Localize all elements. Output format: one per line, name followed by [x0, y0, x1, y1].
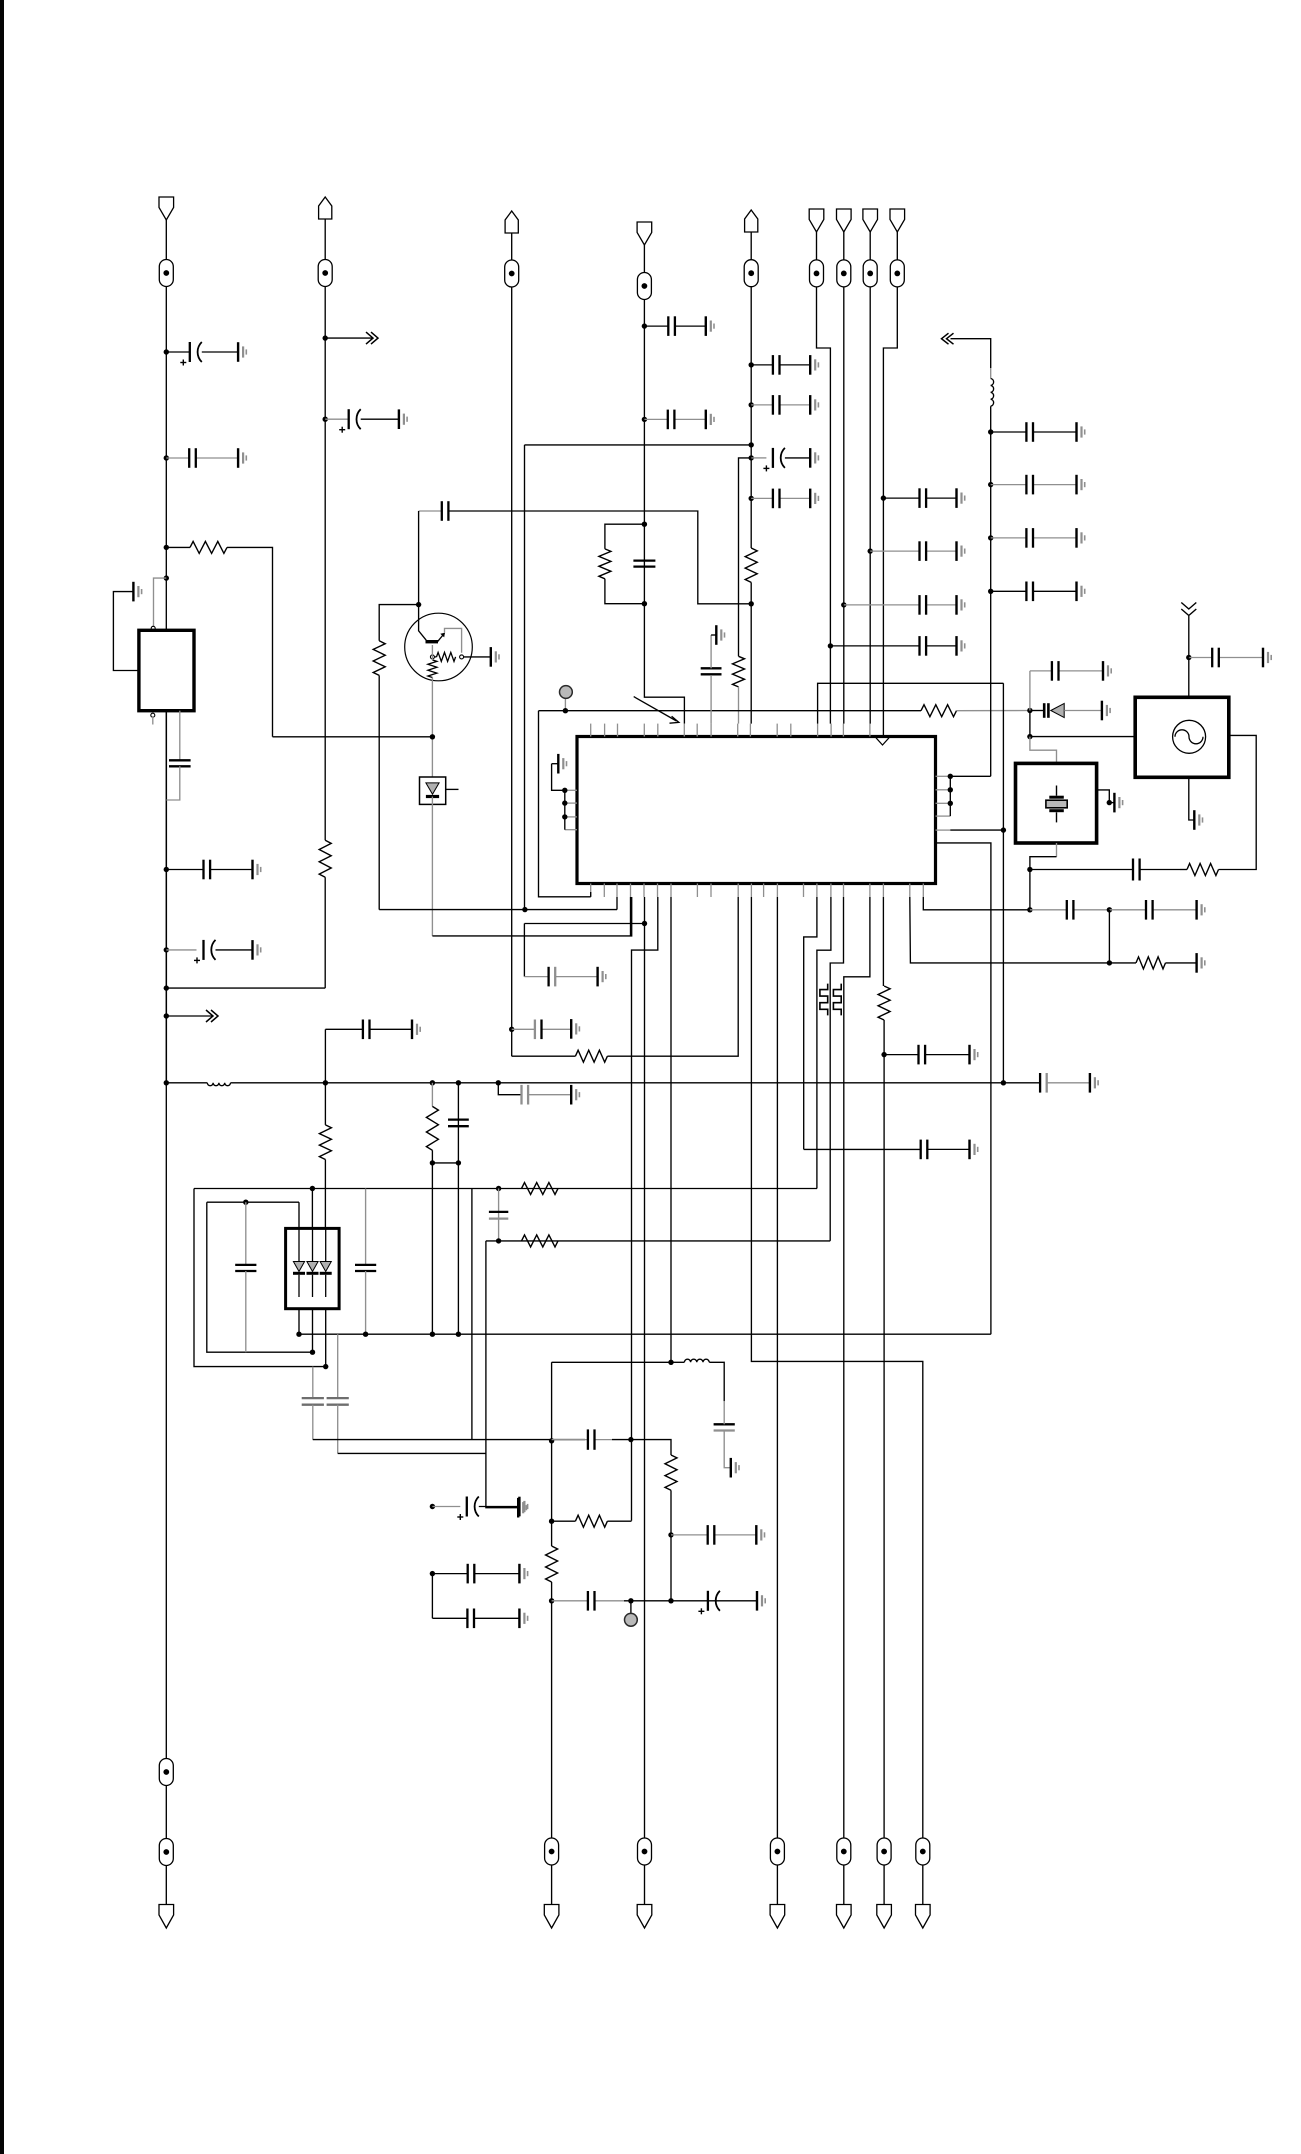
wire to regulator top pin — [154, 578, 167, 626]
junction bus J11 — [430, 1080, 435, 1085]
ground C44 — [519, 1609, 527, 1629]
wire R3 to diode box — [324, 1160, 326, 1229]
pin oval CN2 — [318, 260, 332, 287]
wire CN9 rail jog — [883, 287, 897, 737]
junction J36 — [881, 495, 886, 500]
wire CN13 tail — [843, 1865, 845, 1905]
wire R1 to transistor net — [227, 547, 273, 736]
ground C5 — [253, 940, 261, 960]
wire J13 down — [457, 1163, 459, 1334]
wire R10 to ground — [464, 656, 491, 658]
junction J6 — [164, 947, 169, 952]
polarized capacitor C42 — [457, 1497, 479, 1521]
wire TP1 stem — [564, 698, 566, 710]
resistor R1 — [190, 541, 227, 553]
junction J45 — [1107, 960, 1112, 965]
resistor R6 — [599, 549, 611, 579]
junction J62 — [549, 1519, 554, 1524]
wire CN8 rail — [869, 287, 871, 724]
wire to IC pin 632 — [432, 897, 631, 936]
inductor L1 — [207, 1083, 230, 1086]
wire CN2 stem — [324, 219, 326, 260]
wire C45 bottom lead — [724, 1431, 731, 1468]
junction J20 — [642, 601, 647, 606]
wire C5 lead — [166, 949, 196, 951]
wire base to R11 — [431, 645, 433, 660]
wire IC pin 843 down bus — [936, 843, 991, 1334]
ground C6 — [1090, 1073, 1098, 1093]
junction J29 — [563, 708, 568, 713]
wire pin777 to CN13 — [776, 897, 778, 1838]
capacitor C28 — [870, 541, 956, 561]
wire pin883 to CN16 — [883, 1020, 885, 1838]
diode array D3 box — [286, 1228, 340, 1308]
polarized capacitor C17 — [763, 448, 785, 472]
connector CN1 bottom (shield) — [159, 1905, 174, 1929]
wire C42 to ground — [479, 1506, 520, 1508]
wire long feed y=445 — [525, 444, 752, 446]
wire C31 gnd link — [711, 634, 716, 636]
wire CN1 lower — [165, 1786, 167, 1839]
resistor R7 — [745, 548, 757, 582]
wire X1 bottom pin — [1056, 843, 1058, 857]
wire C46 to R18 — [612, 1440, 671, 1455]
wire R5 to IC pin — [607, 897, 738, 1056]
ground C17 — [810, 448, 818, 468]
IC U1 left side pins — [565, 790, 577, 829]
wire C17 to ground — [785, 457, 810, 459]
wire pin657 long chain — [632, 897, 658, 1521]
wire CN6 stem — [816, 232, 818, 260]
oscillator X2 symbol — [1173, 720, 1206, 753]
capacitor C8 — [325, 1020, 412, 1040]
wire D2 lead — [1030, 710, 1044, 712]
wire C19 to Q1 — [418, 511, 420, 605]
node VCC1 junction — [164, 349, 169, 354]
pin oval CN3 — [505, 260, 519, 287]
wire pin870 to CN14 — [844, 897, 870, 1838]
capacitor C43 — [432, 1564, 519, 1584]
wire C40 top lead — [337, 1334, 339, 1398]
wire CN5 rail upper — [750, 287, 752, 548]
antenna double chevron — [1181, 603, 1196, 610]
wire pin751 to CN15 — [751, 897, 922, 1838]
wire R10 lead — [435, 656, 437, 658]
diode D3b — [307, 1230, 319, 1298]
ground X2 — [1194, 810, 1202, 830]
ground C34 — [970, 1140, 978, 1160]
wire bus to R4 — [431, 1083, 433, 1107]
ground C26 — [1077, 582, 1085, 602]
junction bus right — [1001, 1080, 1006, 1085]
wire to R19 — [552, 1520, 576, 1522]
wire C37 top lead — [245, 1202, 247, 1265]
junction J53 — [363, 1332, 368, 1337]
wire CN14 tail — [883, 1865, 885, 1905]
junction bus left end — [164, 1080, 169, 1085]
junction J52 — [456, 1332, 461, 1337]
ground C32 — [598, 967, 606, 987]
resistor R17 — [522, 1183, 559, 1195]
wire C37 bottom lead — [245, 1271, 247, 1352]
capacitor C11 — [512, 1020, 572, 1040]
pin oval CN7 — [837, 260, 851, 287]
capacitor C33 — [884, 1045, 969, 1065]
junction J46 — [310, 1186, 315, 1191]
wire net D y=1453 — [338, 1452, 486, 1454]
capacitor C45 — [714, 1424, 735, 1430]
junction pin — [562, 814, 567, 819]
junction J22 — [749, 402, 754, 407]
junction pin — [948, 787, 953, 792]
ground net D — [518, 1498, 526, 1518]
capacitor C46 — [552, 1429, 612, 1449]
wire CN5 stem — [750, 232, 752, 260]
wire D3b bottom — [312, 1309, 314, 1353]
wire to R15 — [1109, 962, 1136, 964]
ground C12 — [706, 316, 714, 336]
ferrite squiggle F1 — [820, 984, 828, 1016]
wire row y=1601 — [624, 1600, 757, 1602]
ground C43 — [519, 1564, 527, 1584]
wire L3 to C45 — [709, 1362, 724, 1401]
junction J16 — [509, 1027, 514, 1032]
wire arrow feed — [951, 339, 991, 368]
junction J31 — [1027, 734, 1032, 739]
wire J7 to R2 net — [166, 987, 325, 989]
ground D2 — [1102, 701, 1110, 721]
junction J35 — [1001, 827, 1006, 832]
pin oval CN1 — [159, 260, 173, 287]
junction J2 — [164, 455, 169, 460]
capacitor C35 — [1030, 900, 1110, 920]
ground C13 — [706, 410, 714, 430]
pin oval CN9 — [890, 260, 904, 287]
wire CN6 rail jog — [817, 287, 831, 724]
crystal X1 symbol — [1046, 786, 1067, 823]
resistor R14 — [878, 986, 890, 1020]
ground C49 — [757, 1591, 765, 1611]
junction J33 — [1027, 867, 1032, 872]
resistor R19 — [575, 1515, 607, 1527]
junction J58 — [668, 1360, 673, 1365]
wire pin617 row — [379, 909, 617, 911]
IC U1 top pin stubs — [591, 724, 870, 737]
connector CN8 pin (shield) — [863, 209, 878, 232]
junction J5 — [164, 867, 169, 872]
wire D3a bottom — [298, 1309, 300, 1335]
wire U2 ground link — [113, 592, 138, 671]
wire left feed to J28 — [273, 736, 433, 738]
wire CN1 stem — [165, 219, 167, 260]
junction J24 — [749, 455, 754, 460]
ground C18 — [810, 489, 818, 509]
wire to L3 — [671, 1361, 684, 1363]
junction C25 tap — [988, 535, 993, 540]
wire CN9 stem — [896, 232, 898, 260]
pin oval CN10 — [545, 1838, 559, 1865]
arrow signal in A3 — [942, 333, 949, 344]
wire pin910 row — [910, 897, 1110, 963]
wire D3a top — [298, 1202, 300, 1228]
ground C30 — [957, 636, 965, 656]
test point TP2 — [625, 1613, 638, 1626]
wire VDD riser — [990, 406, 992, 776]
wire C39 top lead — [312, 1367, 314, 1399]
wire X1 right pin — [1097, 790, 1110, 803]
junction J39 — [828, 643, 833, 648]
junction J37 — [868, 548, 873, 553]
junction bus J14 — [456, 1080, 461, 1085]
wire J12 to J13 — [432, 1162, 458, 1164]
junction J41 — [642, 921, 647, 926]
wire D2 to ground — [1064, 710, 1102, 712]
diode D2 — [1043, 703, 1046, 718]
wire CN15 tail — [922, 1865, 924, 1905]
junction J44 — [1107, 907, 1112, 912]
wire C7 to ground — [361, 418, 399, 420]
junction J13 — [456, 1160, 461, 1165]
resistor R20 — [546, 1546, 558, 1582]
scan edge bar — [0, 0, 4, 2154]
capacitor C31 — [701, 668, 722, 674]
wire inner loop top — [207, 1201, 299, 1203]
transistor Q1 emitter arrow — [438, 633, 445, 642]
capacitor C40 — [327, 1398, 349, 1405]
pin oval CN4 — [637, 273, 651, 300]
junction J49 — [310, 1350, 315, 1355]
wire CN8 stem — [869, 232, 871, 260]
junction J3 — [164, 545, 169, 550]
junction J56 — [430, 1504, 435, 1509]
connector CN7 pin (shield) — [837, 209, 852, 232]
capacitor C20 — [1030, 661, 1103, 681]
IC U1 main body — [577, 737, 936, 884]
ground C11 — [571, 1019, 579, 1039]
wire CN3 stem — [511, 233, 513, 260]
capacitor C24 — [991, 475, 1077, 495]
junction J42 — [881, 1052, 886, 1057]
pin oval CN5 — [744, 260, 758, 287]
capacitor C47 — [671, 1525, 756, 1545]
capacitor C9 — [448, 1120, 469, 1127]
wire D3c bottom — [325, 1309, 327, 1367]
capacitor C18 — [751, 489, 810, 509]
wire main bus — [231, 1082, 1041, 1084]
wire to C44 row — [431, 1574, 433, 1619]
ground G-U2 — [133, 582, 141, 602]
junction C23 tap — [988, 429, 993, 434]
resistor R15 — [1136, 957, 1166, 969]
wire R12 to D2 — [957, 710, 1030, 712]
junction J12 — [430, 1160, 435, 1165]
junction pin — [562, 800, 567, 805]
arrow signal out A1 — [166, 1015, 212, 1017]
ground C20 — [1103, 661, 1111, 681]
resistor R13 — [1187, 864, 1219, 876]
wire to oscillator X2 — [1030, 736, 1135, 738]
wire pin923 row — [923, 897, 1030, 910]
diode D1 — [426, 783, 439, 794]
wire C45 top lead — [723, 1401, 725, 1424]
capacitor C38 — [355, 1265, 376, 1271]
wire net E y=1241 — [486, 1240, 830, 1242]
wire C38 top lead — [365, 1189, 367, 1265]
IC U1 right side pins — [936, 776, 951, 830]
wire C31 bottom lead — [710, 676, 712, 724]
wire pin843 chain — [830, 897, 843, 1241]
wire net A (diode box top) — [194, 1188, 817, 1190]
wire CN4 stem — [643, 245, 645, 273]
ground C1 — [238, 342, 246, 362]
wire CN10 tail — [551, 1865, 553, 1905]
wire drop to C32 — [523, 924, 525, 977]
wire R8 to IC pin — [738, 687, 740, 724]
wire C42 lead — [432, 1506, 460, 1508]
wire antenna stem — [1188, 616, 1190, 658]
polarized capacitor C7 — [339, 409, 361, 433]
resistor R12 — [921, 705, 957, 717]
junction J9 — [323, 335, 328, 340]
wire C38 bottom lead — [365, 1271, 367, 1334]
junction J27 — [416, 602, 421, 607]
capacitor C15 — [751, 355, 810, 375]
wire L3 row left — [552, 1361, 671, 1363]
wire C40 bottom lead — [337, 1405, 339, 1454]
wire L2 top lead — [990, 368, 992, 379]
IC U1 pin-1 notch — [876, 738, 889, 745]
ground C28 — [957, 541, 965, 561]
wire D3b top — [311, 1189, 313, 1229]
wire x=486 drop to ground — [486, 1241, 518, 1508]
ground C27 — [957, 488, 965, 508]
wire to IC pin 591 — [539, 711, 591, 897]
ground C22 — [1263, 648, 1271, 668]
inductor L3 — [684, 1359, 709, 1362]
junction J26 — [749, 601, 754, 606]
wire Q1 emitter link — [445, 628, 462, 652]
wire R19 right — [607, 1520, 631, 1522]
wire outer loop — [194, 1189, 326, 1367]
pin oval CN1c — [159, 1839, 173, 1866]
wire U2 output rail — [165, 711, 167, 1083]
diode D1 box — [420, 777, 446, 804]
pin oval CN13 — [837, 1838, 851, 1865]
ground C7 — [399, 409, 407, 429]
connector CN11 bottom (shield) — [637, 1905, 652, 1929]
wire pin883 upper — [882, 897, 884, 986]
junction J10 — [323, 417, 328, 422]
connector CN12 bottom (shield) — [770, 1905, 785, 1929]
junction C26 tap — [988, 589, 993, 594]
arrow signal out A2 — [325, 337, 372, 339]
wire X2 bottom pin — [1189, 777, 1195, 820]
wire R15 to ground — [1166, 962, 1197, 964]
wire R11 down — [431, 678, 433, 778]
junction J40 — [522, 907, 527, 912]
junction J25 — [749, 496, 754, 501]
wire pin 591 link — [590, 892, 592, 897]
wire to R8 — [739, 458, 752, 656]
capacitor C16 — [751, 395, 810, 415]
resistor R16 — [522, 1235, 559, 1247]
ground X1 — [1114, 793, 1122, 813]
wire R20 to CN10 — [551, 1582, 553, 1838]
connector CN6 pin (shield) — [809, 209, 824, 232]
wire C1 lead — [166, 351, 190, 353]
capacitor C2 — [166, 448, 238, 468]
wire CN7 stem — [843, 232, 845, 260]
wire R18 down — [670, 1490, 672, 1601]
wire Q1 collector — [419, 605, 427, 641]
wire CN3 rail — [511, 287, 513, 1056]
wire pin645 row — [524, 923, 644, 925]
wire net B (long) — [299, 1333, 991, 1335]
junction pin — [948, 774, 953, 779]
wire CN12 tail — [776, 1865, 778, 1905]
junction J51 — [430, 1332, 435, 1337]
junction J60 — [628, 1437, 633, 1442]
ground C16 — [810, 395, 818, 415]
junction J61 — [668, 1532, 673, 1537]
junction J48 — [296, 1332, 301, 1337]
oscillator X2 box — [1135, 697, 1229, 777]
junction J55 — [496, 1238, 501, 1243]
capacitor C6 — [1040, 1073, 1090, 1093]
capacitor C12 — [644, 316, 705, 336]
wire C31 top lead — [710, 635, 712, 668]
wire RC pair left bottom — [605, 579, 645, 604]
polarized capacitor C49 — [698, 1591, 720, 1615]
junction bus J10b — [323, 1080, 328, 1085]
ground C36 — [1197, 900, 1205, 920]
junction J43 — [1027, 907, 1032, 912]
connector CN14 bottom (shield) — [877, 1905, 892, 1929]
wire CN2 rail — [324, 287, 326, 841]
wire left pin bus — [564, 790, 566, 829]
wire D1 cathode down — [431, 797, 433, 936]
capacitor C19 — [419, 501, 449, 521]
ground U1 left — [558, 754, 566, 774]
wire X2 top pin — [1188, 658, 1190, 698]
wire bus to R3 — [324, 1083, 326, 1125]
pin oval CN15 — [916, 1838, 930, 1865]
IC U1 bottom pin stubs — [591, 884, 924, 898]
pin oval CN12 — [770, 1838, 784, 1865]
wire VDD top link — [818, 683, 1004, 723]
capacitor C13 — [644, 410, 705, 430]
wire pin to x=1003 — [950, 829, 1003, 831]
diode D3a — [293, 1230, 305, 1298]
wire to R5 — [512, 1055, 576, 1057]
ground C47 — [756, 1525, 764, 1545]
connector CN2 pin — [319, 197, 332, 219]
wire J44 drop — [1108, 910, 1110, 963]
wire X1 bottom link — [1030, 857, 1057, 910]
inductor L2 — [991, 379, 994, 407]
ground C15 — [810, 355, 818, 375]
transistor Q1 (digital transistor) — [405, 613, 473, 681]
junction J63 — [549, 1598, 554, 1603]
ground C8 — [412, 1020, 420, 1040]
junction J30 — [1027, 708, 1032, 713]
capacitor C23 — [991, 422, 1077, 442]
wire pin817 chain — [804, 897, 817, 1149]
capacitor C21 — [1030, 859, 1180, 881]
capacitor C44 — [432, 1609, 519, 1629]
wire C5 to ground — [216, 949, 253, 951]
capacitor C48 — [588, 1591, 624, 1611]
